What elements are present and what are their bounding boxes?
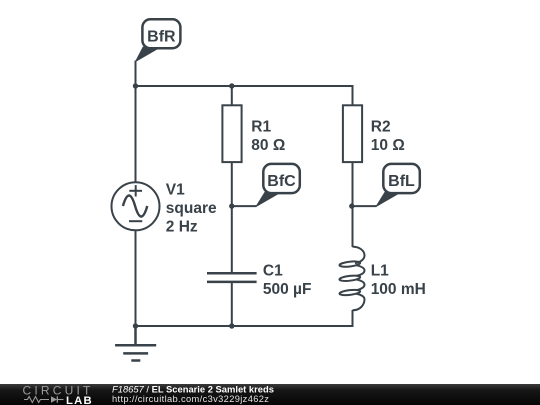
C1 bottom plate	[207, 281, 257, 284]
V1 minus terminal mark	[129, 220, 142, 222]
capacitor C1	[207, 263, 311, 299]
BfL flag tail	[376, 192, 401, 207]
wire: right vertical, L1 bottom to bottom rail	[352, 310, 354, 326]
V1 circle body	[112, 182, 160, 230]
flag BfC (named node BfC)	[256, 164, 300, 206]
logo diode	[51, 396, 57, 402]
flag BfR (named node BfR)	[136, 19, 181, 61]
inductor L1	[339, 247, 426, 311]
svg-text:10 Ω: 10 Ω	[371, 137, 405, 154]
C1 top plate	[207, 272, 257, 275]
svg-text:http://circuitlab.com/c3v3229j: http://circuitlab.com/c3v3229jz462z	[112, 394, 269, 404]
flag BfL (named node BfL)	[376, 164, 420, 206]
svg-text:500 µF: 500 µF	[263, 281, 312, 298]
BfR flag tail	[136, 47, 161, 61]
wire: bottom rail	[136, 325, 354, 327]
wire: top rail	[136, 85, 354, 87]
svg-text:C1: C1	[263, 263, 283, 280]
voltage source V1	[112, 182, 218, 236]
node bottom middle junction	[229, 323, 234, 328]
node B (top middle junction)	[229, 83, 234, 88]
wire: BfL flag stub	[352, 205, 377, 207]
svg-text:BfL: BfL	[388, 173, 415, 190]
V1 plus terminal mark	[129, 190, 142, 192]
svg-text:V1: V1	[166, 182, 185, 199]
resistor R1	[222, 105, 285, 162]
wire: middle vertical, C1 bottom plate to bottom rail	[231, 282, 233, 326]
node BfL probe junction	[349, 203, 354, 208]
BfC flag tail	[256, 192, 281, 207]
L1 coil body	[339, 247, 364, 311]
node BfC probe junction	[229, 203, 234, 208]
footer bar	[0, 384, 540, 405]
node A (top left junction)	[133, 83, 138, 88]
R1 body box	[222, 105, 241, 162]
BfC flag bubble	[263, 164, 300, 193]
wire: left vertical from BfR flag stub through V1 to bottom rail	[135, 61, 137, 327]
resistor R2	[343, 105, 405, 162]
svg-text:100 mH: 100 mH	[371, 281, 426, 298]
wire: middle vertical, top rail to C1 top plate	[231, 86, 233, 273]
node bottom left junction	[133, 323, 138, 328]
svg-text:L1: L1	[371, 263, 389, 280]
svg-text:LAB: LAB	[66, 395, 93, 405]
V1 sine waveform glyph	[123, 196, 147, 217]
svg-text:BfR: BfR	[147, 29, 176, 46]
R2 body box	[343, 105, 362, 162]
wire: right vertical, top rail through R2 to L1 top	[352, 85, 354, 247]
ground bar 1	[115, 344, 156, 347]
BfR flag bubble	[142, 19, 180, 48]
svg-text:2 Hz: 2 Hz	[166, 219, 198, 236]
svg-text:80 Ω: 80 Ω	[251, 137, 285, 154]
svg-text:R2: R2	[371, 119, 391, 136]
logo resistor zigzag	[24, 397, 49, 403]
svg-text:square: square	[166, 200, 217, 217]
svg-text:R1: R1	[251, 119, 271, 136]
wire: BfC flag stub	[232, 205, 257, 207]
ground	[115, 326, 156, 361]
ground bar 3	[131, 359, 140, 362]
svg-text:BfC: BfC	[267, 173, 296, 190]
ground bar 2	[123, 352, 148, 355]
BfL flag bubble	[383, 164, 420, 193]
ground stem	[134, 326, 137, 345]
